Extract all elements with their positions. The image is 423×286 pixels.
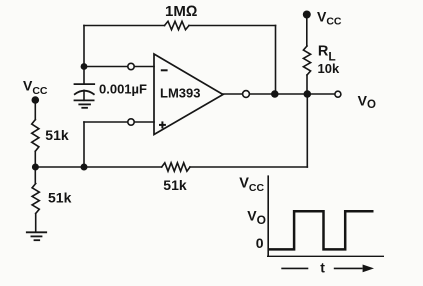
svg-text:0: 0: [256, 235, 264, 251]
svg-text:51k: 51k: [48, 189, 72, 205]
svg-text:1MΩ: 1MΩ: [165, 3, 197, 20]
svg-text:10k: 10k: [318, 61, 340, 76]
svg-text:t: t: [320, 259, 325, 275]
svg-text:51k: 51k: [163, 177, 187, 193]
svg-text:LM393: LM393: [160, 86, 200, 101]
svg-text:51k: 51k: [45, 127, 69, 143]
svg-text:0.001µF: 0.001µF: [99, 82, 147, 97]
